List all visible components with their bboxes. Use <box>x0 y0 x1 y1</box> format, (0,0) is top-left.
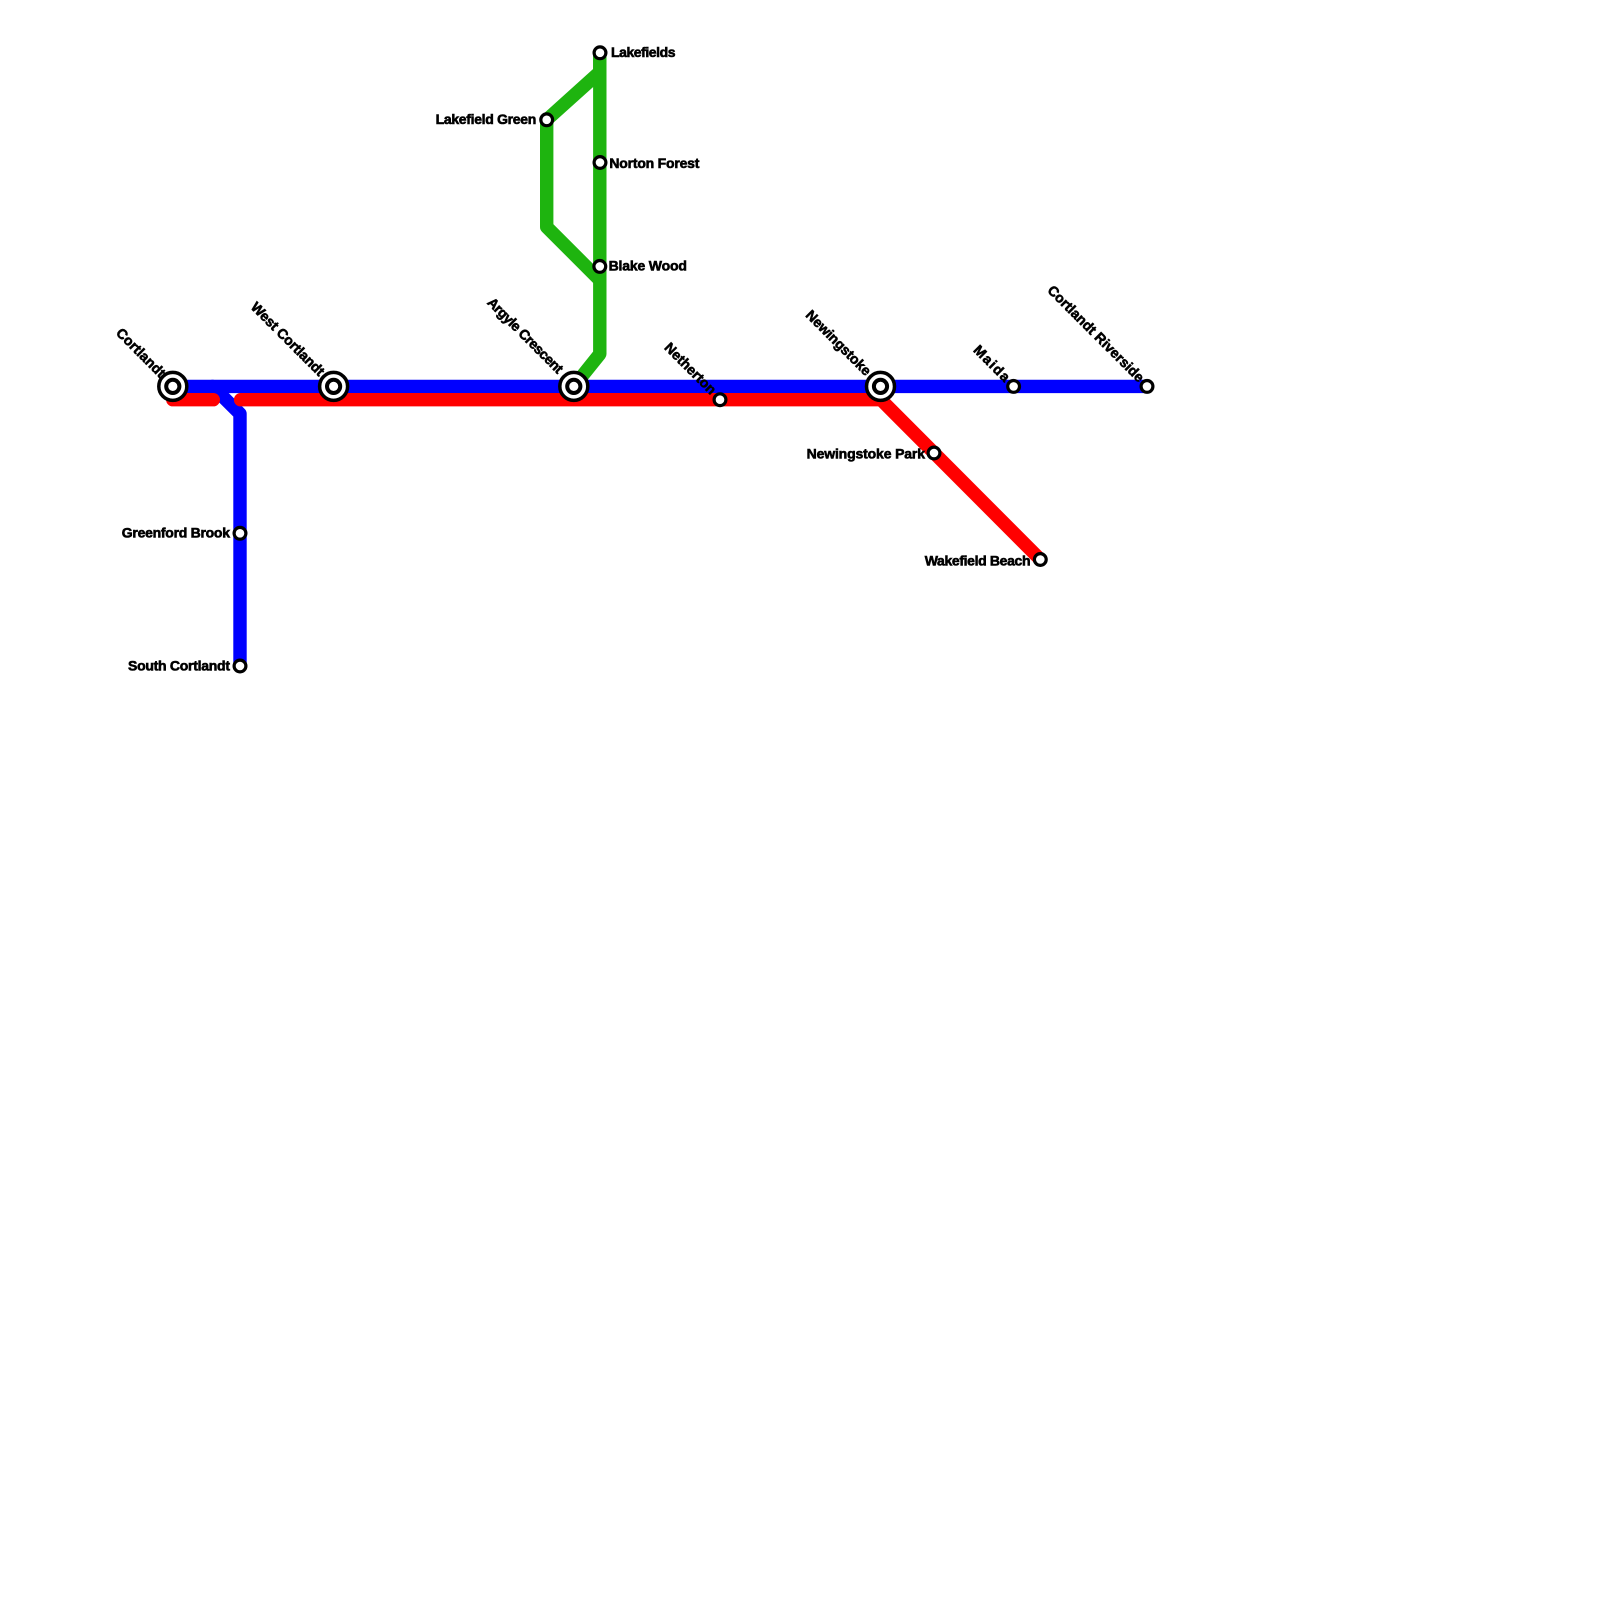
svg-text:Newingstoke Park: Newingstoke Park <box>807 445 926 461</box>
svg-text:Norton Forest: Norton Forest <box>609 155 699 171</box>
svg-text:Lakefield Green: Lakefield Green <box>436 111 537 127</box>
svg-text:South Cortlandt: South Cortlandt <box>128 657 230 673</box>
svg-text:Wakefield Beach: Wakefield Beach <box>925 552 1031 568</box>
svg-text:Blake Wood: Blake Wood <box>609 258 687 274</box>
svg-text:Greenford Brook: Greenford Brook <box>122 525 230 541</box>
svg-text:Lakefields: Lakefields <box>611 44 676 60</box>
